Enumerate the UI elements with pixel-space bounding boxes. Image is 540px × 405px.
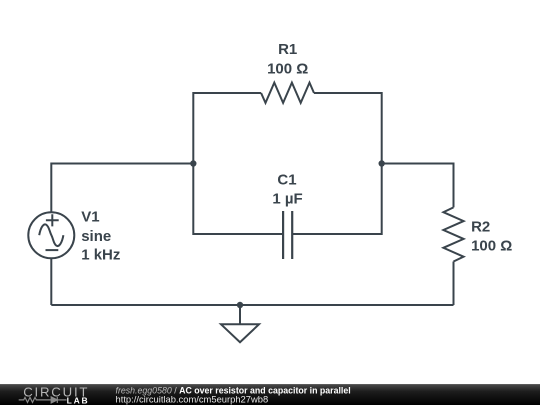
- svg-text:LAB: LAB: [67, 396, 90, 405]
- wire: right junction down to C1 right plate: [293, 164, 382, 235]
- CircuitLab logo waveform with resistor and diode: [19, 397, 67, 403]
- resistor R2: [443, 207, 463, 261]
- ground stub: [239, 305, 241, 324]
- svg-text:1 µF: 1 µF: [272, 191, 302, 208]
- svg-text:100 Ω: 100 Ω: [267, 61, 308, 78]
- svg-text:1 kHz: 1 kHz: [81, 246, 120, 263]
- ground symbol triangle: [221, 324, 259, 342]
- wire: right junction to R2 top: [382, 164, 454, 208]
- voltage source V1 circle: [28, 212, 74, 258]
- svg-text:http://circuitlab.com/cm5eurph: http://circuitlab.com/cm5eurph27wb8: [116, 394, 269, 405]
- V1 minus sign: [46, 249, 59, 251]
- resistor R1: [261, 83, 314, 103]
- node junction dot left: [190, 160, 196, 166]
- capacitor C1 left plate: [282, 211, 284, 259]
- svg-text:sine: sine: [81, 228, 111, 245]
- wire: bottom rail: [51, 304, 453, 306]
- wire: V1 bottom stub: [50, 258, 52, 305]
- capacitor C1 right plate: [291, 211, 293, 259]
- wire: V1 top stub up and across to left junction: [51, 164, 193, 213]
- V1 plus sign: [46, 214, 59, 226]
- node junction dot right: [379, 160, 385, 166]
- svg-text:V1: V1: [81, 209, 99, 226]
- svg-text:R1: R1: [278, 41, 297, 58]
- node junction dot ground: [237, 302, 243, 308]
- wire: R2 bottom down to bottom rail: [453, 262, 455, 306]
- V1 sine wave: [39, 224, 63, 246]
- svg-text:R2: R2: [471, 219, 490, 236]
- wire: left junction up and right to R1 left lead: [193, 93, 261, 164]
- wire: R1 right lead across and down to right junction: [314, 93, 382, 164]
- wire: left junction down to C1 left plate: [193, 164, 282, 235]
- svg-text:C1: C1: [277, 172, 296, 189]
- svg-text:100 Ω: 100 Ω: [471, 238, 512, 255]
